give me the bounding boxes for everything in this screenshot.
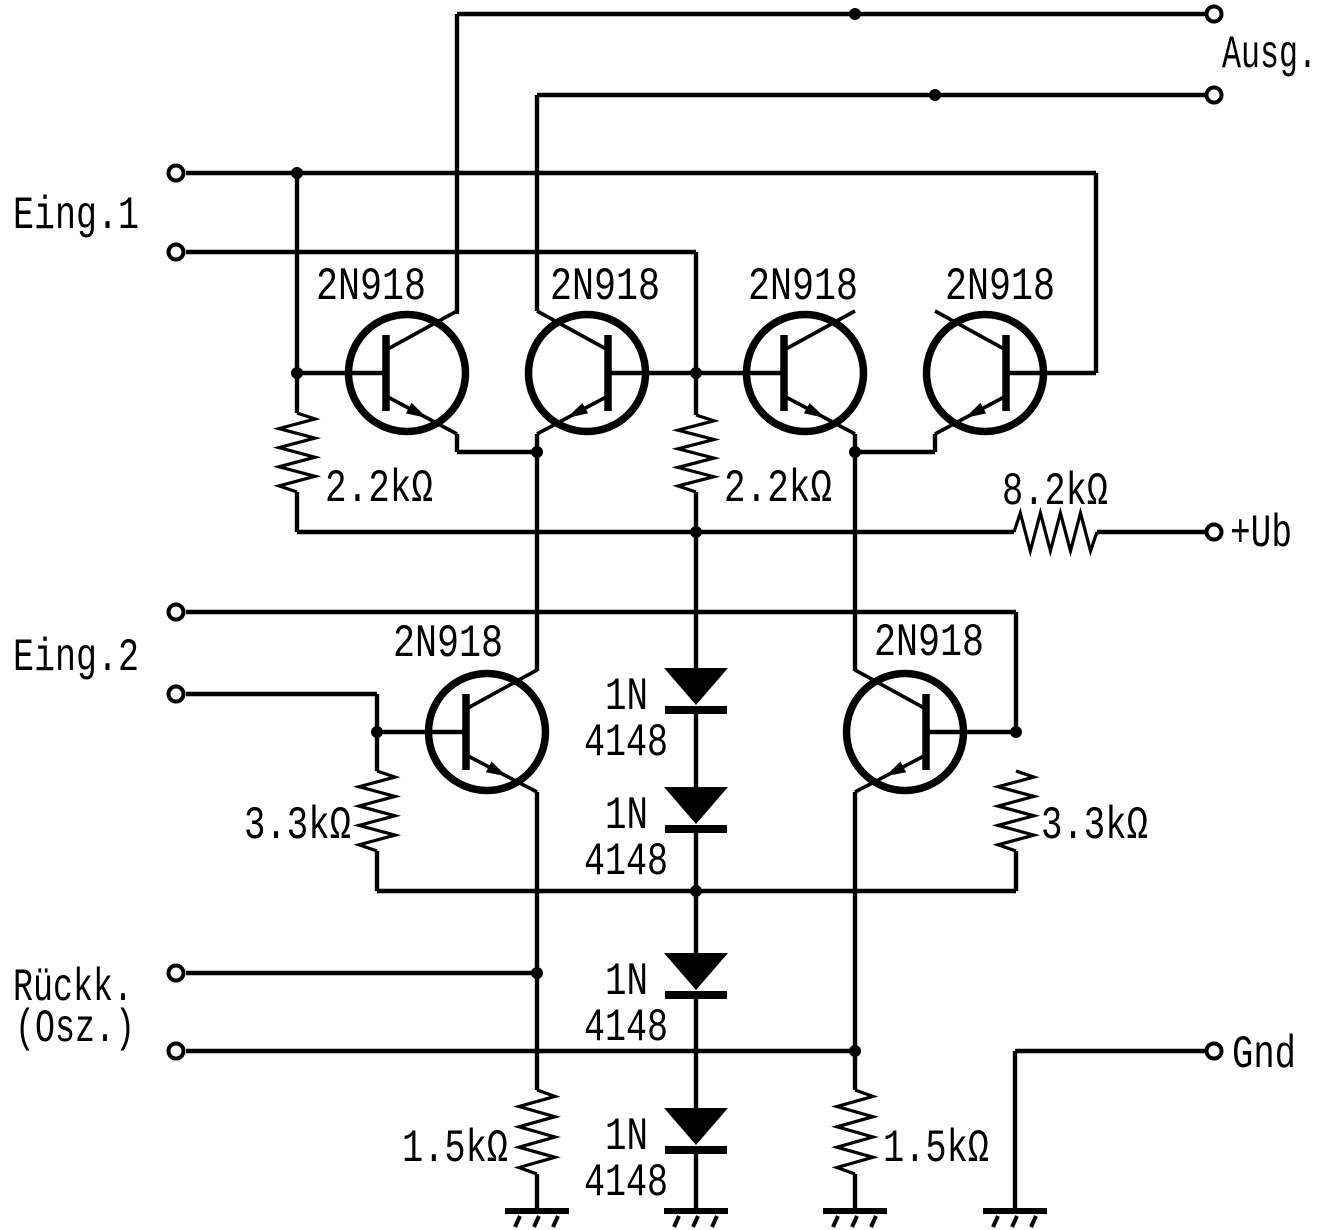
svg-text:1N: 1N bbox=[605, 790, 648, 842]
svg-text:(Osz.): (Osz.) bbox=[15, 1003, 135, 1055]
svg-text:Ausg.: Ausg. bbox=[1222, 29, 1317, 81]
svg-text:1N: 1N bbox=[605, 1111, 648, 1163]
svg-text:1.5kΩ: 1.5kΩ bbox=[883, 1123, 989, 1175]
svg-text:2N918: 2N918 bbox=[874, 617, 984, 669]
svg-text:2N918: 2N918 bbox=[316, 261, 426, 313]
svg-text:4148: 4148 bbox=[584, 717, 668, 769]
svg-text:Eing.1: Eing.1 bbox=[13, 190, 139, 242]
svg-text:Eing.2: Eing.2 bbox=[13, 632, 139, 684]
svg-text:2N918: 2N918 bbox=[550, 261, 660, 313]
svg-text:4148: 4148 bbox=[584, 1157, 668, 1209]
svg-text:3.3kΩ: 3.3kΩ bbox=[1041, 800, 1148, 852]
svg-text:2.2kΩ: 2.2kΩ bbox=[724, 463, 832, 515]
svg-text:4148: 4148 bbox=[584, 1002, 668, 1054]
svg-text:2.2kΩ: 2.2kΩ bbox=[325, 463, 433, 515]
svg-text:3.3kΩ: 3.3kΩ bbox=[244, 800, 351, 852]
svg-text:2N918: 2N918 bbox=[748, 261, 858, 313]
svg-text:1N: 1N bbox=[605, 956, 648, 1008]
svg-text:2N918: 2N918 bbox=[945, 261, 1055, 313]
svg-text:2N918: 2N918 bbox=[393, 618, 503, 670]
svg-text:1.5kΩ: 1.5kΩ bbox=[402, 1123, 508, 1175]
svg-text:+Ub: +Ub bbox=[1230, 508, 1292, 560]
svg-text:4148: 4148 bbox=[584, 836, 668, 888]
svg-text:1N: 1N bbox=[605, 671, 648, 723]
svg-text:Gnd: Gnd bbox=[1232, 1029, 1296, 1081]
svg-text:8.2kΩ: 8.2kΩ bbox=[1002, 466, 1108, 518]
